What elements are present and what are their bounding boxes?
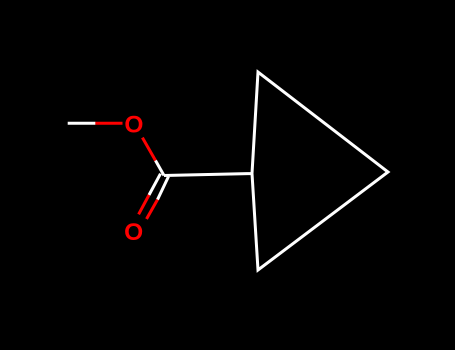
svg-text:O: O xyxy=(124,219,143,246)
svg-text:O: O xyxy=(124,112,143,139)
